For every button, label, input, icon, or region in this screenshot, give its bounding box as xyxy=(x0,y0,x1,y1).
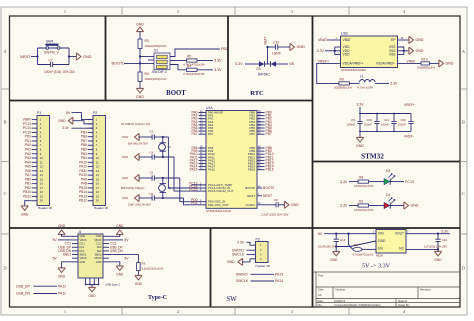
reset loop wire xyxy=(38,47,70,49)
svg-text:GND: GND xyxy=(135,282,143,286)
svg-text:SWDIO: SWDIO xyxy=(232,248,244,252)
svg-text:18: 18 xyxy=(40,190,44,194)
svg-text:PB7: PB7 xyxy=(266,132,272,136)
svg-text:PA13: PA13 xyxy=(275,272,283,276)
svg-text:18: 18 xyxy=(96,190,100,194)
wire switch row3 to R7 xyxy=(170,65,186,70)
wire branch B2 xyxy=(139,197,153,199)
decoupling capacitor C11 xyxy=(393,114,395,132)
svg-text:GND: GND xyxy=(21,212,29,216)
wire R7 to 3.3V xyxy=(197,69,213,71)
ground C13 xyxy=(333,251,340,256)
svg-text:510Ω(511)±1%: 510Ω(511)±1% xyxy=(354,184,374,188)
wire diode common node up xyxy=(265,63,271,65)
svg-text:PB7: PB7 xyxy=(250,132,256,136)
svg-text:8MHz(49S) ±30ppm: 8MHz(49S) ±30ppm xyxy=(121,186,144,190)
svg-text:BOOT: BOOT xyxy=(166,90,186,97)
capacitor C13 xyxy=(335,234,337,252)
svg-text:GND: GND xyxy=(116,272,124,276)
junction C13 xyxy=(335,233,337,235)
wire crystal B2 to PD1 xyxy=(184,198,199,205)
svg-text:GND: GND xyxy=(297,45,306,49)
svg-text:GND: GND xyxy=(356,144,364,148)
svg-text:GND: GND xyxy=(80,234,86,238)
crystal Y1 32kHz xyxy=(162,137,164,143)
svg-text:GND: GND xyxy=(122,196,128,200)
wire LED D4 to GND xyxy=(390,205,404,207)
wire EP pin to GND xyxy=(398,39,410,41)
svg-text:C:\Users\ADVANCED\..\STM32F401: C:\Users\ADVANCED\..\STM32F401.SchDoc xyxy=(334,304,381,307)
svg-text:PB15: PB15 xyxy=(248,168,255,172)
svg-text:10uF(106) 10%: 10uF(106) 10% xyxy=(318,244,338,248)
wire R3 to BOOT node xyxy=(139,49,141,73)
svg-text:CC2: CC2 xyxy=(96,242,102,246)
wire node to switch row3 xyxy=(140,63,154,65)
resistor R3 xyxy=(138,39,142,49)
ground J1 bottom-right xyxy=(109,262,120,267)
svg-text:5V: 5V xyxy=(124,238,129,242)
svg-text:PD1-OSC_OUT: PD1-OSC_OUT xyxy=(208,203,229,207)
svg-text:VREF+: VREF+ xyxy=(318,60,330,64)
ground EP xyxy=(409,36,414,43)
wire R4 to GND xyxy=(139,82,141,90)
svg-text:SBU2: SBU2 xyxy=(95,252,102,256)
svg-text:PB12: PB12 xyxy=(79,199,87,203)
svg-text:510Ω(511)±1%: 510Ω(511)±1% xyxy=(354,208,374,212)
svg-text:VREF-: VREF- xyxy=(407,59,417,63)
svg-text:GND: GND xyxy=(96,260,102,264)
svg-text:Dp1: Dp1 xyxy=(80,245,85,249)
junction C13 gnd node xyxy=(335,245,337,247)
svg-text:Header 20: Header 20 xyxy=(94,206,108,210)
svg-text:1: 1 xyxy=(64,309,66,314)
svg-text:3.3V: 3.3V xyxy=(237,240,245,244)
svg-text:R5: R5 xyxy=(187,54,191,58)
ground VSSA xyxy=(439,60,444,67)
wire NC to C14 branch xyxy=(406,248,438,250)
svg-text:17: 17 xyxy=(40,186,44,190)
wire 3.3V to diode xyxy=(245,63,259,65)
svg-text:GND: GND xyxy=(58,274,66,278)
svg-text:100nF: 100nF xyxy=(398,123,406,127)
dual diode D3 xyxy=(259,61,264,66)
svg-text:PA14: PA14 xyxy=(275,279,283,283)
ground bottom of BOOT xyxy=(136,88,143,93)
svg-text:13: 13 xyxy=(40,169,44,173)
svg-text:PD1: PD1 xyxy=(191,201,198,205)
svg-text:Sheet of: Sheet of xyxy=(398,300,408,303)
svg-text:PA15: PA15 xyxy=(190,168,198,172)
svg-text:BOOT0: BOOT0 xyxy=(263,186,274,190)
wire VBAT to pin 1 xyxy=(327,39,341,41)
svg-text:3.3V: 3.3V xyxy=(214,68,222,72)
svg-text:14: 14 xyxy=(40,173,44,177)
svg-text:VDDA/VREF+: VDDA/VREF+ xyxy=(343,61,364,65)
wire NRST to node xyxy=(31,56,38,58)
svg-text:2: 2 xyxy=(177,9,179,14)
svg-text:GND: GND xyxy=(122,155,128,159)
svg-text:GND: GND xyxy=(83,55,92,59)
svg-text:VBUS: VBUS xyxy=(94,256,101,260)
wire VOUT to 3.3V xyxy=(406,233,450,235)
svg-text:C3: C3 xyxy=(150,129,154,133)
wire R5 to 3.3V xyxy=(197,60,213,62)
svg-text:GND: GND xyxy=(80,260,86,264)
svg-text:5V: 5V xyxy=(124,256,129,260)
svg-text:Size: Size xyxy=(318,287,324,291)
svg-text:STM32F401CCU6: STM32F401CCU6 xyxy=(206,209,231,213)
svg-text:3.3V: 3.3V xyxy=(235,62,243,66)
svg-text:VBAT: VBAT xyxy=(318,38,328,42)
svg-text:GND: GND xyxy=(378,239,386,243)
svg-text:10kΩ(1002)±1%: 10kΩ(1002)±1% xyxy=(145,44,167,48)
wire shield to ground xyxy=(91,285,93,289)
svg-text:NC: NC xyxy=(399,247,404,251)
svg-text:PB11: PB11 xyxy=(23,194,31,198)
wire LED to PC13 xyxy=(390,181,404,183)
svg-text:P1: P1 xyxy=(37,111,41,115)
wire VDDA pin to inductor row xyxy=(317,63,341,83)
wire NRST pin xyxy=(257,195,262,197)
svg-text:C10: C10 xyxy=(273,40,279,44)
svg-text:Number: Number xyxy=(336,287,346,291)
svg-text:C36: C36 xyxy=(366,118,372,122)
svg-text:R6: R6 xyxy=(142,262,146,266)
ground LED D4 xyxy=(404,202,409,209)
svg-text:VREF+: VREF+ xyxy=(404,103,415,107)
svg-text:5pF (80) 5% 50V: 5pF (80) 5% 50V xyxy=(128,142,148,146)
regulator U2 xyxy=(376,230,406,254)
svg-text:USB type-C: USB type-C xyxy=(105,282,120,286)
wire PC13 stub xyxy=(191,184,206,186)
svg-text:C12: C12 xyxy=(400,118,406,122)
svg-text:D4: D4 xyxy=(386,193,390,197)
svg-text:VCAP1: VCAP1 xyxy=(246,203,256,207)
svg-text:4.7uH ±10%: 4.7uH ±10% xyxy=(357,86,373,90)
svg-text:BAT54C: BAT54C xyxy=(258,73,270,77)
svg-text:PA12: PA12 xyxy=(58,284,66,288)
svg-text:3.3V: 3.3V xyxy=(340,180,348,184)
svg-text:P3: P3 xyxy=(256,238,260,242)
svg-text:17: 17 xyxy=(96,186,100,190)
junction BOOT row1 xyxy=(139,55,141,57)
svg-text:PA7: PA7 xyxy=(192,132,198,136)
svg-text:Type-C: Type-C xyxy=(148,295,167,301)
svg-text:GND: GND xyxy=(136,23,144,27)
svg-text:P2: P2 xyxy=(93,111,97,115)
svg-text:100nF: 100nF xyxy=(347,123,355,127)
border reference ticks xyxy=(121,7,123,16)
wire BOOT0 label to node xyxy=(124,63,140,65)
svg-text:PC13: PC13 xyxy=(405,180,414,184)
svg-text:10kΩ(1002)±1%: 10kΩ(1002)±1% xyxy=(145,77,167,81)
junction left xyxy=(36,55,38,57)
svg-text:C4: C4 xyxy=(150,150,154,154)
svg-text:A4: A4 xyxy=(318,293,322,297)
svg-text:GND: GND xyxy=(96,234,102,238)
wire GND to R3 xyxy=(139,31,141,39)
svg-text:BOOT0: BOOT0 xyxy=(245,186,255,190)
svg-text:14: 14 xyxy=(96,173,100,177)
ground J1 shield xyxy=(88,287,95,292)
svg-text:VSS: VSS xyxy=(389,53,396,57)
svg-text:Header 4H: Header 4H xyxy=(256,264,271,268)
wire 5V to VIN xyxy=(324,233,376,235)
junction BOOT0 xyxy=(139,62,141,64)
wire C10 to GND xyxy=(278,46,290,48)
wire BOOT0 pin xyxy=(257,187,262,189)
svg-text:Title: Title xyxy=(318,273,324,277)
svg-text:C8: C8 xyxy=(274,198,278,202)
svg-text:10pF (100) 5% 50V: 10pF (100) 5% 50V xyxy=(128,203,151,207)
capacitor C12 VREF xyxy=(410,114,412,132)
decoupling capacitor C36 xyxy=(376,114,378,132)
svg-text:R1: R1 xyxy=(354,243,358,247)
wire L1 to 3.3V xyxy=(375,82,389,84)
svg-text:3.3V: 3.3V xyxy=(340,204,348,208)
svg-text:SW1: SW1 xyxy=(46,40,54,44)
svg-text:VOUT: VOUT xyxy=(395,232,404,236)
wire GND pin diagonal xyxy=(336,241,376,247)
svg-text:10: 10 xyxy=(96,156,100,160)
wire 3.3V to VDD bracket xyxy=(325,50,335,52)
wire R10 to GND xyxy=(430,62,440,64)
svg-text:CC1: CC1 xyxy=(80,242,86,246)
svg-text:3.3V: 3.3V xyxy=(390,82,398,86)
svg-text:5V: 5V xyxy=(53,238,58,242)
svg-text:R10: R10 xyxy=(422,57,428,61)
svg-text:U1B: U1B xyxy=(341,32,348,36)
wire branch A2 xyxy=(139,156,153,158)
svg-text:Revision: Revision xyxy=(420,287,431,291)
svg-text:100nF: 100nF xyxy=(272,52,281,56)
svg-text:C: C xyxy=(4,191,7,196)
svg-text:5V: 5V xyxy=(66,111,71,115)
svg-text:Drawn By:: Drawn By: xyxy=(398,304,410,307)
ground right of SW1 xyxy=(76,53,81,60)
svg-text:VBAT: VBAT xyxy=(263,37,267,45)
svg-text:19: 19 xyxy=(40,194,44,198)
wire crystal A1 to PC14 xyxy=(168,137,198,188)
wire P1 pin20 to ground xyxy=(25,201,32,207)
svg-text:PA11: PA11 xyxy=(58,292,66,296)
crystal Y2 8MHz xyxy=(162,178,164,183)
svg-text:C13: C13 xyxy=(340,238,346,242)
title block lines xyxy=(313,271,461,273)
svg-text:R2: R2 xyxy=(359,200,363,204)
svg-text:11: 11 xyxy=(40,160,43,164)
svg-text:C11: C11 xyxy=(384,118,390,122)
wire to GND xyxy=(69,56,77,58)
wire 5V to P2 pin1 xyxy=(72,113,94,120)
wire node to C10 xyxy=(268,46,276,48)
svg-text:13: 13 xyxy=(96,169,100,173)
svg-text:PB2: PB2 xyxy=(221,47,228,51)
resistor R4 xyxy=(138,72,142,82)
wire VCAP1 to capacitor C8 xyxy=(257,204,276,206)
svg-text:C9: C9 xyxy=(351,118,355,122)
svg-text:SBU1: SBU1 xyxy=(80,252,87,256)
svg-text:R9: R9 xyxy=(340,77,344,81)
svg-text:4.7kΩ(4701)±1%: 4.7kΩ(4701)±1% xyxy=(183,72,205,76)
svg-text:NRST: NRST xyxy=(247,194,255,198)
VDD bracket wires xyxy=(334,47,336,55)
wire 3.3V to P2 pin3 xyxy=(72,127,94,129)
svg-text:SWCLK: SWCLK xyxy=(236,279,249,283)
svg-text:NRST: NRST xyxy=(20,55,31,59)
svg-text:H3: H3 xyxy=(386,169,390,173)
svg-text:R8: R8 xyxy=(359,176,363,180)
svg-text:20: 20 xyxy=(40,199,44,203)
wire VSSA to R10 xyxy=(398,62,422,64)
svg-text:GND: GND xyxy=(446,62,454,66)
section divider lines xyxy=(105,16,107,101)
junction C14 xyxy=(437,233,439,235)
svg-text:B: B xyxy=(462,120,465,125)
wire to R2 xyxy=(349,205,358,207)
connector P2 pins with net labels xyxy=(88,119,93,121)
svg-text:2.2uF (225) 20% 50V: 2.2uF (225) 20% 50V xyxy=(261,212,289,216)
svg-text:11: 11 xyxy=(96,160,99,164)
connector P1 pins with net labels xyxy=(32,119,37,121)
wire branch A1 xyxy=(139,136,153,138)
svg-text:Dn2: Dn2 xyxy=(97,245,102,249)
svg-text:STM32F401RCE6: STM32F401RCE6 xyxy=(341,68,366,72)
svg-text:C5: C5 xyxy=(150,170,154,174)
USB connector J1 pin stubs xyxy=(72,235,78,237)
svg-text:S1: S1 xyxy=(154,49,158,53)
svg-text:SWCLK: SWCLK xyxy=(232,253,245,257)
ground cap bank xyxy=(359,131,361,138)
svg-text:10: 10 xyxy=(40,156,44,160)
wire CC2 to resistor R6 xyxy=(109,255,138,263)
wire GND to P2 pin2 xyxy=(73,121,93,124)
svg-text:VBUS: VBUS xyxy=(80,238,87,242)
svg-text:PC15-OSC32_OUT: PC15-OSC32_OUT xyxy=(208,189,234,193)
svg-text:0Ω(0805)±1%: 0Ω(0805)±1% xyxy=(417,66,435,70)
ground C14 xyxy=(434,251,441,256)
wire node to switch row1 xyxy=(140,56,154,58)
wire switch row2 to R5 xyxy=(170,60,186,62)
svg-text:Date:: Date: xyxy=(318,300,324,303)
ground J1 bottom-left xyxy=(62,262,72,269)
svg-text:SWDIO: SWDIO xyxy=(236,272,248,276)
wire R8 to LED H3 xyxy=(369,181,385,183)
wire switch row2 stub xyxy=(148,59,154,61)
svg-text:File:: File: xyxy=(318,304,323,307)
svg-text:C: C xyxy=(462,191,465,196)
svg-text:1uF(105) 10% 25V: 1uF(105) 10% 25V xyxy=(424,244,447,248)
svg-text:PB15: PB15 xyxy=(266,168,274,172)
svg-text:100nF: 100nF xyxy=(381,123,389,127)
svg-text:SW: SW xyxy=(226,295,237,303)
svg-text:20: 20 xyxy=(96,199,100,203)
svg-text:100nF (104) 10% 16V: 100nF (104) 10% 16V xyxy=(44,70,76,74)
svg-text:15: 15 xyxy=(40,177,44,181)
svg-text:GND: GND xyxy=(411,204,419,208)
svg-text:2: 2 xyxy=(177,309,179,314)
svg-text:GND: GND xyxy=(58,224,66,228)
junction dots cap bank xyxy=(359,113,361,115)
svg-text:GND: GND xyxy=(330,258,338,262)
wire R6 to ground xyxy=(137,271,139,276)
svg-text:GND: GND xyxy=(116,224,124,228)
svg-text:GND: GND xyxy=(136,95,144,99)
svg-text:3.3V: 3.3V xyxy=(214,59,222,63)
svg-text:R4: R4 xyxy=(145,72,149,76)
svg-text:3.3V: 3.3V xyxy=(317,49,325,53)
junction right xyxy=(68,55,70,57)
wire R2 to LED D4 xyxy=(369,205,385,207)
svg-text:BOOT0: BOOT0 xyxy=(112,62,125,66)
cap bank rails xyxy=(359,107,361,114)
decoupling capacitor C9 xyxy=(359,114,361,132)
svg-text:GND: GND xyxy=(122,135,128,139)
svg-text:VIN: VIN xyxy=(378,232,384,236)
svg-text:VSSA/VREF-: VSSA/VREF- xyxy=(376,61,396,65)
ground RTC xyxy=(290,43,295,50)
svg-text:SW DIP-3: SW DIP-3 xyxy=(152,70,167,74)
svg-text:GND: GND xyxy=(227,260,235,264)
svg-text:3.3V: 3.3V xyxy=(62,126,70,130)
svg-text:RTC: RTC xyxy=(250,90,264,97)
svg-text:19: 19 xyxy=(96,194,100,198)
ground VSS xyxy=(409,47,414,54)
svg-text:STM32: STM32 xyxy=(361,153,384,161)
svg-text:PA7: PA7 xyxy=(208,132,214,136)
svg-text:4.7kΩ(4701)±1%: 4.7kΩ(4701)±1% xyxy=(353,252,374,256)
svg-text:5V -> 3.3V: 5V -> 3.3V xyxy=(362,263,391,270)
svg-text:12: 12 xyxy=(40,165,44,169)
wire switch row1 to PB2 xyxy=(170,49,220,57)
svg-text:32.768kHz ±20ppm 7pF: 32.768kHz ±20ppm 7pF xyxy=(121,122,151,126)
ground P1 xyxy=(21,206,28,211)
svg-text:5V: 5V xyxy=(318,232,323,236)
svg-text:1: 1 xyxy=(64,9,66,14)
svg-text:VREF-: VREF- xyxy=(404,135,414,139)
svg-text:3.3V: 3.3V xyxy=(356,102,364,106)
svg-text:NRST: NRST xyxy=(263,194,272,198)
svg-text:2019/5/13: 2019/5/13 xyxy=(334,300,346,303)
MCU U1A right pin stubs and labels xyxy=(257,112,265,114)
svg-text:PA15: PA15 xyxy=(208,168,215,172)
svg-text:GND: GND xyxy=(416,49,424,53)
svg-text:USB_DP: USB_DP xyxy=(16,284,30,288)
wire C8 to ground xyxy=(279,204,285,206)
svg-text:D3: D3 xyxy=(257,67,261,71)
svg-text:12: 12 xyxy=(96,165,100,169)
wire EN feed down xyxy=(349,234,351,247)
VSS bracket wires xyxy=(398,47,404,55)
svg-text:USB_DN: USB_DN xyxy=(110,249,124,253)
svg-text:VBUS: VBUS xyxy=(80,256,87,260)
ground C8 xyxy=(284,201,289,208)
capacitor C14 xyxy=(437,234,439,252)
svg-text:GND: GND xyxy=(416,38,424,42)
svg-text:5V: 5V xyxy=(53,256,58,260)
wire crystal B1 to PD0 xyxy=(180,178,199,202)
svg-text:EN: EN xyxy=(378,247,383,251)
svg-text:VBUS: VBUS xyxy=(94,238,101,242)
wire crystal A2 to PC15 xyxy=(174,157,199,191)
junction EN feed xyxy=(347,233,349,235)
svg-text:GND: GND xyxy=(434,258,442,262)
svg-text:B: B xyxy=(4,120,7,125)
svg-text:GND: GND xyxy=(122,176,128,180)
svg-text:15: 15 xyxy=(96,177,100,181)
svg-text:5.1kΩ(5101)±1%: 5.1kΩ(5101)±1% xyxy=(142,267,164,271)
wire R1 to EN xyxy=(350,247,353,250)
